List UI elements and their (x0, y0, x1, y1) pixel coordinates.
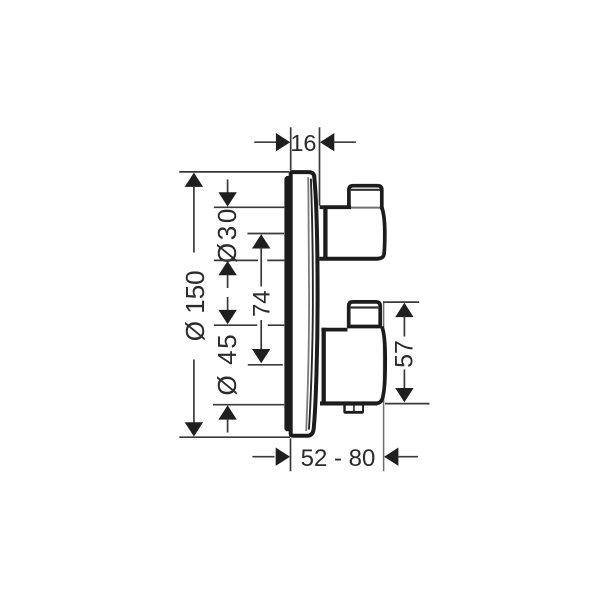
dim Ø150: top arrow (185, 173, 203, 187)
dim 52-80: left arrow (276, 448, 290, 466)
dim 57: top extension line (383, 301, 419, 303)
dim 57: top arrow (inside, pointing up) (395, 303, 413, 317)
dim 52-80: right leader line (397, 456, 418, 458)
lower handle cap inner line (351, 306, 379, 308)
dim 16: left arrow (276, 133, 290, 151)
dim 57: bottom arrow (inside, pointing down) (395, 388, 413, 402)
svg-text:Ø 45: Ø 45 (212, 333, 242, 396)
dim 52-80: right arrow (384, 448, 398, 466)
svg-text:74: 74 (249, 290, 276, 317)
dim 74: bottom arrow (inside, pointing down) (252, 349, 270, 363)
dim 74: top extension line (248, 233, 285, 235)
dim Ø30: top arrow (outside, pointing down) (218, 192, 236, 206)
dim Ø150: dimension line lower segment (193, 360, 195, 424)
escutcheon plate outline (side view) (291, 172, 318, 436)
svg-text:16: 16 (290, 130, 316, 156)
plate face contour (dark inner line) (309, 179, 313, 430)
dim Ø150: bottom extension line (179, 436, 290, 438)
dim 16: left extension line (290, 127, 292, 170)
dim 52-80: left extension line (290, 439, 292, 472)
dim 16: right leader line (333, 141, 356, 143)
lower handle body bottom edge (320, 401, 378, 405)
dim 16: right arrow (320, 133, 334, 151)
dim Ø45: stub above top arrow (227, 297, 229, 311)
front extension line of 52-80 / handle front (gray vertical) (383, 303, 385, 471)
dim Ø150: bottom arrow (185, 422, 203, 436)
dim Ø30: stub above top arrow (227, 180, 229, 194)
dim Ø30: bottom extension line (two segments, break at 74 line) (214, 259, 258, 261)
dim 74: top arrow (inside, pointing up) (252, 234, 270, 248)
dim Ø150: dimension line upper segment (193, 186, 195, 253)
dim 57: dimension line lower segment (403, 370, 405, 390)
svg-text:57: 57 (390, 340, 418, 368)
dim Ø30: top extension line (214, 206, 284, 208)
upper handle cap inner line (351, 189, 380, 191)
lower handle body left edge (322, 328, 326, 405)
dim 74: dimension line lower segment (260, 320, 262, 350)
upper handle body right edge (bulged) (378, 208, 385, 259)
lower handle body top edge (321, 328, 347, 332)
dim 16: left leader line (254, 141, 277, 143)
dim Ø45: top extension line (break at 74 line) (214, 324, 257, 326)
dim Ø30: stub below bottom arrow (227, 275, 229, 289)
dim Ø45: top arrow (outside, pointing down) (218, 310, 236, 324)
lower handle cap bottom edge (347, 325, 382, 329)
upper handle body top edge (320, 205, 351, 209)
upper handle body left edge (323, 206, 327, 261)
lower handle cap (349, 302, 381, 326)
dim 74: dimension line upper segment (260, 248, 262, 287)
dim 74: bottom extension line (248, 364, 283, 366)
adjustment screw tab under lower handle (343, 403, 364, 414)
plate face contour (light inner line) (306, 177, 309, 431)
svg-text:52 - 80: 52 - 80 (301, 445, 376, 472)
wall flange (back band of escutcheon) (284, 176, 291, 431)
upper handle body bottom edge (319, 257, 378, 261)
svg-text:Ø30: Ø30 (212, 206, 242, 263)
upper handle cap (349, 186, 382, 210)
svg-text:Ø 150: Ø 150 (180, 270, 210, 341)
dim 16: right extension line (319, 127, 321, 205)
dim Ø30: bottom arrow (outside, pointing up) (218, 261, 236, 275)
dim Ø45: bottom extension line (213, 404, 284, 406)
lower handle body right edge (bulged) (376, 327, 385, 404)
dim Ø150: top extension line (179, 171, 289, 173)
dim 57: dimension line upper segment (403, 316, 405, 336)
dim 52-80: left leader line (252, 456, 274, 458)
dim 57: bottom extension line (385, 403, 430, 405)
upper handle junction line (gray) (351, 207, 380, 209)
dim Ø45: bottom arrow (outside, pointing up) (218, 405, 236, 419)
dim Ø45: stub below bottom arrow (227, 419, 229, 433)
